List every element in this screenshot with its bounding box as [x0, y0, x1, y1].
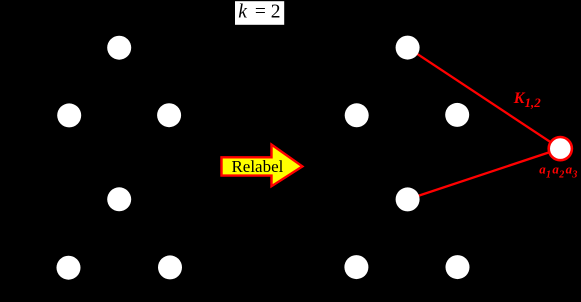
relabel arrow	[222, 145, 303, 187]
svg-text:k = 2: k = 2	[238, 2, 280, 23]
node G4 bottom-right	[446, 255, 470, 279]
edge K1,2 upper: top node G3 to red node	[408, 48, 561, 149]
node G4 bottom-left	[344, 255, 368, 279]
node G1 bottom-left	[57, 103, 81, 127]
svg-text:Relabel: Relabel	[231, 157, 283, 176]
node G2 bottom-left	[57, 256, 81, 280]
node G1 top	[107, 36, 131, 60]
k = 2 box	[235, 1, 284, 25]
node G2 top	[107, 187, 131, 211]
node G1 bottom-right	[157, 103, 181, 127]
node G3 bottom-left	[345, 103, 369, 127]
edge K1,2 lower: red node to top node G4	[408, 149, 561, 200]
node G3 bottom-right	[445, 103, 469, 127]
node G4 top	[396, 187, 420, 211]
node G3 top	[396, 36, 420, 60]
node G2 bottom-right	[158, 255, 182, 279]
red node a1a2a3	[549, 137, 572, 160]
